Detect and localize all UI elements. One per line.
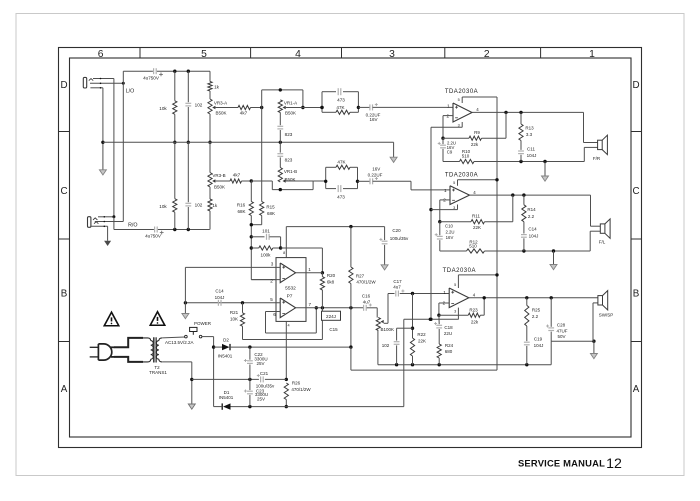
svg-text:68K: 68K [237, 209, 245, 214]
svg-text:823: 823 [285, 132, 293, 137]
svg-text:L/O: L/O [126, 89, 135, 95]
svg-text:C20: C20 [392, 228, 401, 233]
svg-text:R23: R23 [469, 307, 478, 312]
svg-text:A: A [61, 384, 68, 395]
svg-text:4k7: 4k7 [233, 173, 241, 178]
svg-text:IN5401: IN5401 [219, 395, 234, 400]
svg-text:2.2U: 2.2U [445, 229, 454, 234]
svg-text:2: 2 [270, 278, 273, 283]
svg-text:A: A [633, 384, 640, 395]
svg-text:B50K: B50K [285, 111, 296, 116]
svg-text:7: 7 [309, 302, 312, 307]
svg-text:10K: 10K [230, 316, 238, 321]
svg-text:C21: C21 [260, 371, 269, 376]
svg-text:50V: 50V [557, 334, 565, 339]
svg-text:C: C [632, 186, 639, 197]
svg-text:680: 680 [445, 349, 453, 354]
svg-text:SERVICE MANUAL: SERVICE MANUAL [518, 458, 605, 469]
svg-text:R16: R16 [237, 203, 246, 208]
svg-text:5: 5 [458, 98, 460, 102]
svg-text:TDA2030A: TDA2030A [443, 268, 476, 274]
svg-text:R25: R25 [532, 307, 541, 312]
svg-text:1k: 1k [214, 84, 220, 89]
svg-text:6: 6 [98, 49, 104, 60]
svg-text:8: 8 [283, 251, 285, 255]
svg-text:104J: 104J [527, 153, 537, 158]
svg-text:1: 1 [444, 188, 447, 193]
svg-text:R14: R14 [527, 207, 536, 212]
svg-text:22U: 22U [444, 331, 452, 336]
svg-text:D2: D2 [223, 338, 229, 343]
svg-text:B: B [61, 288, 68, 299]
svg-text:VR1-A: VR1-A [284, 100, 297, 105]
svg-text:25V: 25V [256, 361, 264, 366]
svg-text:2.2: 2.2 [528, 214, 535, 219]
svg-text:R22: R22 [417, 332, 426, 337]
svg-text:3: 3 [389, 49, 395, 60]
svg-text:B50K: B50K [284, 177, 295, 182]
svg-text:TDA2030A: TDA2030A [445, 173, 478, 179]
svg-text:4u750V: 4u750V [143, 76, 160, 81]
svg-text:C10: C10 [445, 223, 453, 228]
svg-text:POWER: POWER [194, 321, 212, 326]
svg-text:101: 101 [262, 229, 270, 234]
svg-text:C16: C16 [362, 293, 371, 298]
svg-text:5: 5 [201, 49, 207, 60]
svg-text:R/O: R/O [128, 223, 137, 229]
svg-text:22k: 22k [471, 319, 479, 324]
svg-text:VR3-A: VR3-A [214, 100, 227, 105]
svg-text:C15: C15 [329, 327, 338, 332]
svg-text:510: 510 [462, 153, 470, 158]
svg-text:10k: 10k [159, 106, 167, 111]
svg-text:TRANS1: TRANS1 [149, 370, 167, 375]
svg-text:D: D [632, 80, 639, 91]
svg-text:R21: R21 [230, 310, 239, 315]
svg-text:B50K: B50K [215, 111, 226, 116]
svg-text:25V: 25V [257, 397, 265, 402]
svg-text:2: 2 [484, 49, 490, 60]
svg-text:R24: R24 [445, 343, 454, 348]
svg-text:473: 473 [337, 194, 345, 199]
svg-text:R26: R26 [292, 381, 301, 386]
svg-text:104J: 104J [534, 343, 544, 348]
svg-text:3: 3 [458, 124, 460, 128]
svg-text:4u750V: 4u750V [145, 234, 162, 239]
svg-text:C14: C14 [215, 288, 224, 293]
svg-text:6k8: 6k8 [327, 280, 335, 285]
svg-text:102: 102 [195, 203, 203, 208]
svg-text:SW/SP: SW/SP [599, 312, 614, 317]
svg-text:D: D [60, 80, 67, 91]
svg-text:22K: 22K [418, 338, 426, 343]
svg-text:16V: 16V [446, 235, 454, 240]
svg-text:16V: 16V [369, 117, 377, 122]
svg-text:47K: 47K [336, 105, 345, 110]
svg-text:16V: 16V [372, 166, 380, 171]
svg-text:C19: C19 [534, 336, 543, 341]
svg-text:R15: R15 [266, 205, 275, 210]
svg-text:C9: C9 [447, 149, 453, 154]
svg-text:C17: C17 [393, 279, 402, 284]
svg-text:473: 473 [337, 98, 345, 103]
svg-text:R20: R20 [327, 273, 336, 278]
svg-text:2.2: 2.2 [532, 314, 539, 319]
svg-text:C11: C11 [527, 147, 535, 152]
svg-text:4: 4 [295, 49, 301, 60]
svg-text:102: 102 [195, 103, 203, 108]
svg-text:0.22UF: 0.22UF [368, 173, 383, 178]
svg-text:C14: C14 [528, 226, 537, 231]
svg-text:R27: R27 [356, 273, 365, 278]
svg-text:F/R: F/R [593, 156, 601, 161]
svg-text:3: 3 [454, 309, 456, 313]
svg-text:4u7: 4u7 [393, 285, 401, 290]
svg-text:F/L: F/L [599, 240, 606, 245]
svg-text:VR1-B: VR1-B [284, 169, 297, 174]
svg-text:104J: 104J [529, 233, 539, 238]
svg-text:10k: 10k [159, 204, 167, 209]
svg-text:B100K: B100K [380, 327, 394, 332]
svg-text:5: 5 [454, 283, 456, 287]
svg-text:C: C [60, 186, 67, 197]
svg-text:5: 5 [453, 181, 455, 185]
svg-text:5532: 5532 [285, 286, 296, 292]
svg-text:224J: 224J [326, 314, 336, 319]
svg-text:47UF: 47UF [556, 329, 567, 334]
svg-text:1k: 1k [212, 203, 218, 208]
svg-text:22K: 22K [473, 225, 481, 230]
svg-text:823: 823 [285, 158, 293, 163]
svg-text:3: 3 [271, 262, 274, 267]
svg-text:22k: 22k [471, 142, 479, 147]
svg-text:12: 12 [606, 456, 622, 472]
svg-text:TDA2030A: TDA2030A [445, 89, 478, 95]
svg-text:VR3-B: VR3-B [212, 173, 225, 178]
svg-text:R9: R9 [474, 130, 480, 135]
svg-text:1: 1 [308, 267, 311, 272]
svg-text:3: 3 [453, 206, 455, 210]
svg-text:470/1/2W: 470/1/2W [291, 387, 311, 392]
svg-text:510: 510 [469, 244, 477, 249]
svg-text:C28: C28 [557, 323, 566, 328]
svg-text:R13: R13 [525, 125, 534, 130]
svg-text:1: 1 [589, 49, 595, 60]
svg-text:4k7: 4k7 [240, 110, 248, 115]
svg-text:47K: 47K [337, 159, 346, 164]
svg-text:4u7: 4u7 [363, 299, 371, 304]
svg-text:6: 6 [273, 312, 276, 317]
svg-text:102: 102 [382, 343, 390, 348]
svg-text:R11: R11 [472, 214, 480, 219]
svg-text:5: 5 [270, 297, 273, 302]
svg-text:AC13.5V/2.2A: AC13.5V/2.2A [165, 340, 194, 345]
svg-text:100k: 100k [261, 252, 272, 257]
svg-text:3.3: 3.3 [526, 132, 533, 137]
svg-text:IN5401: IN5401 [218, 353, 233, 358]
svg-text:C18: C18 [444, 325, 453, 330]
svg-text:B50K: B50K [214, 185, 225, 190]
svg-text:B: B [633, 288, 640, 299]
svg-text:1: 1 [447, 104, 450, 109]
svg-text:1: 1 [443, 290, 446, 295]
svg-text:100u/35v: 100u/35v [390, 236, 409, 241]
svg-text:470/1/2W: 470/1/2W [356, 279, 376, 284]
svg-text:P7: P7 [287, 294, 293, 300]
svg-text:104J: 104J [215, 295, 225, 300]
svg-text:68K: 68K [267, 211, 275, 216]
svg-text:4: 4 [288, 323, 290, 327]
